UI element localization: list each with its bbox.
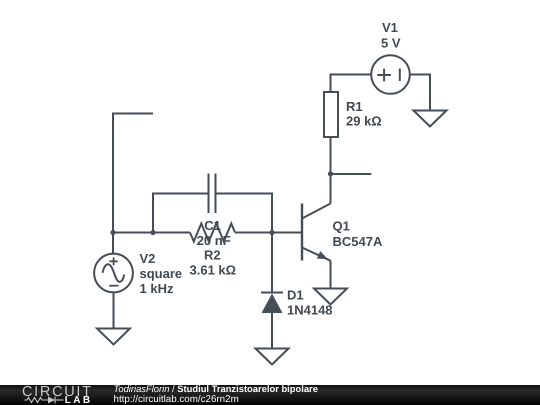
svg-text:TodiriasFlorin / Studiul Tranz: TodiriasFlorin / Studiul Tranzistoarelor… [114, 383, 318, 394]
wire capacitor left branch [153, 194, 209, 233]
svg-text:LAB: LAB [65, 395, 93, 405]
transistor Q1 [302, 204, 331, 261]
wire V1 left to R1 top [331, 75, 372, 93]
node collector junction [328, 171, 333, 176]
wire stub right of collector node [331, 173, 372, 175]
wire R2 right to base node [235, 232, 272, 234]
logo resistor-diode symbol [24, 397, 63, 404]
diode D1 [261, 293, 283, 314]
voltage source V2 [94, 254, 133, 293]
wire V2 top [112, 233, 114, 254]
resistor R2 [190, 224, 235, 242]
svg-text:http://circuitlab.com/c26rn2m: http://circuitlab.com/c26rn2m [114, 394, 239, 405]
wire capacitor right branch [216, 194, 273, 233]
wire emitter to ground [330, 261, 332, 289]
ground (Q1 emitter) [314, 289, 347, 305]
footer bar [0, 385, 540, 405]
wire base node down to D1 [271, 233, 273, 293]
wire stub top left [113, 114, 153, 233]
voltage source V1 [371, 55, 410, 94]
wire R1 bottom to collector node [330, 137, 332, 174]
wire collector node down to Q1 collector [330, 174, 332, 204]
wire D1 to ground [271, 313, 273, 349]
wire base [272, 232, 302, 234]
wire V2 bottom [113, 292, 115, 328]
wire main input net [113, 232, 190, 234]
node base junction [269, 230, 274, 235]
node cap left [150, 230, 155, 235]
node V2 top [110, 230, 115, 235]
ground (D1) [256, 349, 289, 365]
capacitor C1 [209, 174, 216, 214]
wire V1 right to ground [410, 75, 430, 111]
resistor R1 [324, 92, 338, 137]
ground (V2) [97, 329, 130, 345]
ground (V1) [414, 111, 447, 127]
